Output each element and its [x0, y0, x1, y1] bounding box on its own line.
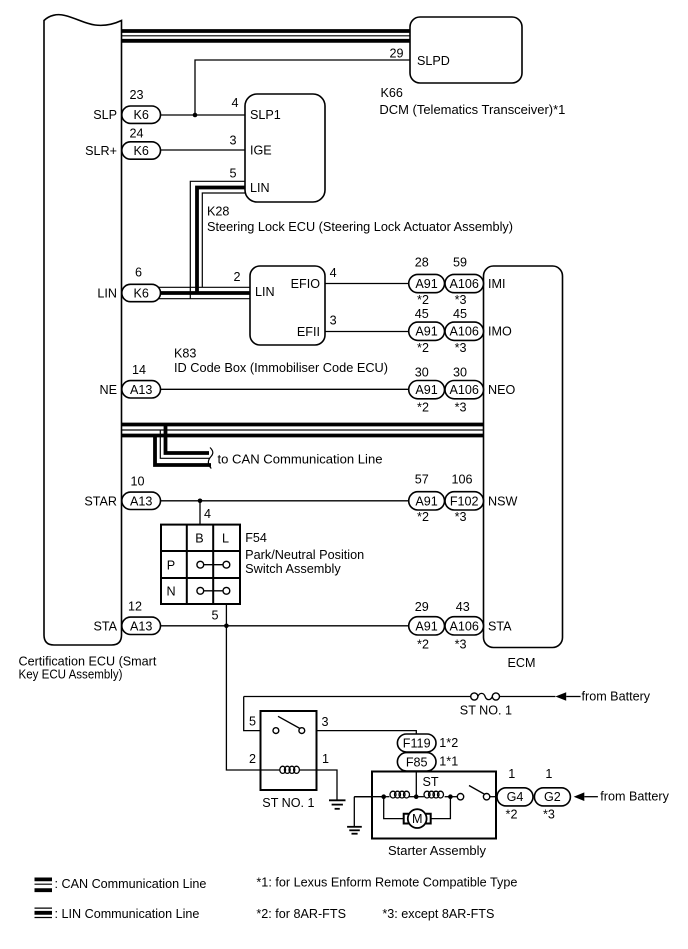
svg-text:A106: A106 [449, 619, 478, 633]
ground (relay coil) [329, 800, 346, 809]
wire starter to ground [354, 797, 372, 827]
svg-text:from Battery: from Battery [600, 790, 669, 804]
wire STAR junction to F54 pin 4 [199, 501, 201, 525]
wire K6 pin 23 to K28 pin 4 SLP1 [158, 114, 245, 116]
svg-text:Key ECU Assembly): Key ECU Assembly) [19, 668, 123, 682]
svg-text:M: M [412, 812, 423, 826]
svg-text:LIN: LIN [255, 285, 275, 299]
svg-text:3: 3 [229, 134, 236, 148]
svg-text:Certification ECU (Smart: Certification ECU (Smart [19, 655, 157, 669]
svg-text:45: 45 [453, 307, 467, 321]
connector A91 pin 30 (NEO row) [409, 365, 445, 414]
svg-text:1*2: 1*2 [439, 736, 458, 750]
svg-text:59: 59 [453, 256, 467, 270]
node starter coil left [381, 794, 386, 799]
wire A13 pin 10 STAR to A91 pin 57 NSW [158, 500, 410, 502]
CAN bus (top, Certification ECU to DCM) [122, 31, 411, 41]
wire A13 pin 12 STA to A91 pin 29 STA [158, 625, 410, 627]
svg-text:IMO: IMO [488, 325, 512, 339]
svg-text:K6: K6 [133, 144, 148, 158]
wire starter main line [354, 796, 457, 798]
svg-text:IMI: IMI [488, 277, 506, 291]
svg-text:SLPD: SLPD [417, 54, 450, 68]
ground (starter) [347, 827, 362, 834]
svg-text:ST: ST [423, 775, 439, 789]
svg-text:5: 5 [249, 715, 256, 729]
svg-text:*2: *2 [417, 401, 429, 415]
svg-text:*2: *2 [417, 293, 429, 307]
svg-text:STA: STA [93, 619, 117, 633]
wire K6 pin 24 to K28 pin 3 IGE [158, 149, 245, 151]
wire relay pin 3 to F119/F85 and starter ST [317, 731, 417, 797]
svg-text:SLP: SLP [93, 108, 117, 122]
junction node SLP [193, 113, 198, 118]
starter magnetic switch contacts [457, 786, 497, 800]
Certification ECU (Smart Key ECU Assembly) box [19, 15, 157, 682]
svg-text:N: N [166, 585, 175, 599]
F54 contact P row [197, 561, 230, 568]
svg-text:106: 106 [451, 473, 472, 487]
connector G4 pin 1 [497, 767, 533, 821]
svg-text:L: L [222, 532, 229, 546]
svg-text:ECM: ECM [508, 656, 536, 670]
connector A106 pin 45 (IMO row) [445, 307, 484, 355]
svg-text:STAR: STAR [84, 494, 117, 508]
legend LIN Communication Line [35, 907, 200, 921]
svg-text:10: 10 [130, 475, 144, 489]
svg-text:A91: A91 [415, 619, 437, 633]
svg-text:*3: except 8AR-FTS: *3: except 8AR-FTS [382, 907, 494, 921]
svg-text:3: 3 [330, 314, 337, 328]
starter hold-in coil [390, 791, 410, 798]
wire A13 pin 14 NE to A91 pin 30 [158, 388, 410, 390]
svg-text:ST NO. 1: ST NO. 1 [460, 704, 512, 718]
svg-text:*3: *3 [455, 293, 467, 307]
svg-text:EFIO: EFIO [291, 277, 321, 291]
svg-text:*2: *2 [417, 638, 429, 652]
svg-text:NSW: NSW [488, 494, 517, 508]
wire battery feed with fuse ST NO. 1 [244, 696, 556, 698]
svg-text:43: 43 [456, 600, 470, 614]
connector F102 pin 106 (NSW row) [445, 473, 484, 525]
connector K6 pin 23 (SLP) [93, 88, 160, 123]
svg-text:A91: A91 [415, 277, 437, 291]
connector K6 pin 24 (SLR+) [85, 127, 160, 160]
svg-text:4: 4 [231, 96, 238, 110]
svg-text:from Battery: from Battery [582, 689, 651, 703]
svg-text:NE: NE [100, 383, 118, 397]
svg-text:LIN: LIN [97, 286, 117, 300]
svg-text:*1: for Lexus Enform Remote Co: *1: for Lexus Enform Remote Compatible T… [256, 876, 517, 890]
svg-text:Starter Assembly: Starter Assembly [388, 844, 487, 858]
wire F54 pin 5 to STA junction [225, 604, 227, 626]
connector A91 pin 45 (IMO row) [409, 307, 445, 355]
svg-text:B: B [195, 532, 203, 546]
svg-text:*2: *2 [506, 808, 518, 822]
svg-text:K6: K6 [133, 286, 148, 300]
svg-text:2: 2 [233, 270, 240, 284]
node starter coil right [448, 794, 453, 799]
svg-text:F119: F119 [403, 737, 431, 751]
svg-text:: LIN Communication Line: : LIN Communication Line [55, 907, 200, 921]
ST NO. 1 relay [249, 711, 329, 810]
relay coil [261, 766, 317, 773]
svg-text:1: 1 [322, 752, 329, 766]
Starter Assembly box [372, 772, 496, 859]
connector A91 pin 29 (STA row) [409, 600, 445, 652]
svg-text:LIN: LIN [250, 181, 270, 195]
Steering Lock ECU box K28 [207, 94, 513, 234]
connector A13 pin 14 (NE) [100, 363, 161, 398]
svg-text:G2: G2 [544, 790, 561, 804]
svg-text:F54: F54 [245, 531, 267, 545]
svg-text:*2: *2 [417, 510, 429, 524]
arrow from Battery (top) [555, 689, 650, 703]
svg-text:45: 45 [415, 307, 429, 321]
connector A106 pin 43 (STA row) [445, 600, 484, 652]
svg-text:G4: G4 [507, 790, 524, 804]
svg-text:A106: A106 [449, 325, 478, 339]
LIN bus upper branch to K28 pin 5 [190, 181, 245, 298]
svg-text:Park/Neutral Position: Park/Neutral Position [245, 548, 364, 562]
svg-text:*2: *2 [417, 341, 429, 355]
node starter coil mid (ST) [414, 794, 419, 799]
svg-text:DCM (Telematics Transceiver)*1: DCM (Telematics Transceiver)*1 [379, 103, 565, 117]
svg-text:K83: K83 [174, 347, 196, 361]
svg-text:5: 5 [229, 167, 236, 181]
wire SLP to DCM pin 29 (SLPD) [195, 60, 410, 115]
svg-text:F102: F102 [450, 494, 479, 508]
svg-text:EFII: EFII [297, 325, 320, 339]
svg-text:A91: A91 [415, 494, 437, 508]
connector A13 pin 10 (STAR) [84, 475, 160, 510]
connector F85 pin 1*1 [397, 753, 458, 771]
svg-text:5: 5 [211, 609, 218, 623]
wire K83 pin 3 EFII to A91 pin 45 [325, 331, 410, 333]
svg-text:NEO: NEO [488, 383, 515, 397]
svg-text:K66: K66 [381, 86, 403, 100]
svg-text:: CAN Communication Line: : CAN Communication Line [55, 877, 207, 891]
DCM (Telematics Transceiver) box K66 [379, 17, 565, 117]
svg-text:30: 30 [415, 365, 429, 379]
connector A91 pin 28 (IMI row) [409, 256, 445, 308]
svg-text:F85: F85 [406, 755, 428, 769]
svg-text:6: 6 [135, 265, 142, 279]
arrow from Battery (bottom) [574, 790, 670, 804]
svg-text:A91: A91 [415, 383, 437, 397]
svg-text:*3: *3 [543, 808, 555, 822]
svg-text:4: 4 [330, 266, 337, 280]
connector A106 pin 59 (IMI row) [445, 256, 484, 308]
connector G2 pin 1 [534, 767, 570, 821]
F54 contact N row [197, 587, 230, 594]
svg-text:Switch Assembly: Switch Assembly [245, 562, 341, 576]
svg-text:K6: K6 [133, 108, 148, 122]
starter motor M [384, 797, 451, 828]
svg-text:57: 57 [415, 473, 429, 487]
CAN branch to CAN communication line [155, 425, 383, 469]
svg-text:1*1: 1*1 [439, 755, 458, 769]
connector F119 pin 1*2 [397, 734, 458, 752]
svg-text:14: 14 [132, 363, 146, 377]
connector A91 pin 57 (NSW row) [409, 473, 445, 525]
svg-text:*3: *3 [455, 401, 467, 415]
svg-text:*3: *3 [455, 341, 467, 355]
wire relay pin 5 to battery wire [244, 697, 261, 731]
wire K83 pin 4 EFIO to A91 pin 28 [325, 283, 410, 285]
svg-text:A13: A13 [130, 383, 152, 397]
svg-text:SLR+: SLR+ [85, 144, 117, 158]
svg-text:12: 12 [128, 600, 142, 614]
svg-text:Steering Lock ECU (Steering Lo: Steering Lock ECU (Steering Lock Actuato… [207, 220, 513, 234]
connector A13 pin 12 (STA) [93, 600, 160, 635]
connector A106 pin 30 (NEO row) [445, 365, 484, 414]
junction node STAR [198, 499, 203, 504]
svg-text:30: 30 [453, 365, 467, 379]
svg-text:*2: for 8AR-FTS: *2: for 8AR-FTS [256, 907, 346, 921]
svg-text:SLP1: SLP1 [250, 108, 281, 122]
svg-text:A91: A91 [415, 325, 437, 339]
junction node STA [224, 624, 229, 629]
svg-text:1: 1 [545, 767, 552, 781]
CAN bus (middle, Certification ECU to ECM) [122, 425, 484, 436]
connector K6 pin 6 (LIN) [97, 265, 160, 301]
starter pull-in coil [424, 791, 444, 798]
svg-text:A106: A106 [449, 383, 478, 397]
svg-text:1: 1 [508, 767, 515, 781]
svg-text:A13: A13 [130, 494, 152, 508]
svg-text:ID Code Box (Immobiliser Code: ID Code Box (Immobiliser Code ECU) [174, 361, 388, 375]
ID Code Box (Immobiliser Code ECU) K83 [174, 266, 388, 375]
svg-text:28: 28 [415, 256, 429, 270]
LIN bus (K6 pin 6 to K83 pin 2) [158, 287, 250, 298]
legend CAN Communication Line [35, 877, 207, 891]
wire STA junction to ST NO.1 relay pin 2 [226, 626, 260, 770]
svg-text:A106: A106 [449, 277, 478, 291]
svg-text:*3: *3 [455, 510, 467, 524]
svg-text:*3: *3 [455, 638, 467, 652]
svg-text:to CAN Communication Line: to CAN Communication Line [218, 453, 383, 467]
svg-text:2: 2 [249, 752, 256, 766]
wire relay pin 1 to ground [317, 770, 338, 800]
svg-text:ST NO. 1: ST NO. 1 [262, 796, 314, 810]
svg-text:A13: A13 [130, 619, 152, 633]
svg-text:29: 29 [415, 600, 429, 614]
ECM box [484, 266, 563, 670]
svg-text:24: 24 [129, 127, 143, 141]
svg-text:23: 23 [129, 88, 143, 102]
svg-text:IGE: IGE [250, 144, 272, 158]
svg-text:3: 3 [322, 715, 329, 729]
svg-text:4: 4 [204, 507, 211, 521]
svg-text:P: P [167, 559, 175, 573]
fuse ST NO. 1 [460, 693, 512, 718]
svg-text:K28: K28 [207, 205, 229, 219]
Park/Neutral Position Switch Assembly F54 [161, 507, 364, 623]
svg-text:29: 29 [389, 47, 403, 61]
svg-text:STA: STA [488, 619, 512, 633]
relay switch contacts [273, 716, 305, 733]
